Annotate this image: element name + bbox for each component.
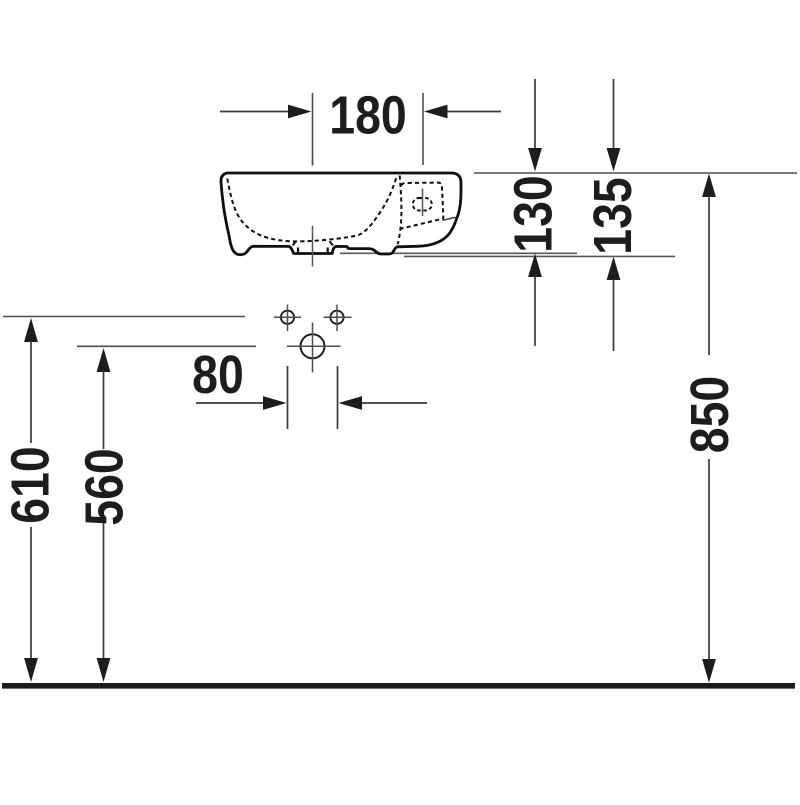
fixing hole right crosshair [324,316,352,318]
svg-text:180: 180 [329,84,406,145]
svg-text:130: 130 [502,175,563,252]
svg-text:135: 135 [582,177,643,254]
svg-text:850: 850 [679,376,740,453]
dim 135: lower up arrow and stem [607,257,621,280]
extension line B (basin underside, for 135) [404,255,675,257]
extension line A (basin bottom, for 130) [340,252,577,254]
drain centerline through pocket [312,226,314,267]
dim 560: top up arrow and stem [97,348,111,372]
tap platform side wall (dashed) [398,176,402,245]
svg-text:610: 610 [0,446,60,523]
floor line [2,683,795,689]
dim 80: right arrow [358,402,427,404]
drain cone left wing [293,241,296,245]
svg-text:80: 80 [192,344,244,405]
inner bowl rim (hidden/dashed) [227,175,397,241]
tap hole (dashed stadium) [413,198,432,211]
dim 610: lower stem and down arrow to floor [30,527,32,660]
dim 850: top up arrow and stem [702,174,716,198]
dim 180: right arrow [444,111,501,113]
drain cone right wing [330,241,333,245]
fixing hole left [281,311,294,324]
dim 180: left extension line [312,93,314,165]
fixing hole left crosshair [274,316,301,318]
deck-to-rim thin edge line [443,217,455,220]
dim 560: lower stem and down arrow to floor [103,523,105,660]
dim 180: left arrow [220,111,292,113]
dim 80: right extension line [337,366,339,429]
extension line for 610 (fixing hole height) [3,316,245,318]
dim 130: lower up arrow and stem [528,254,542,277]
dim 135: upper stem and down arrow [613,79,615,152]
basin centerline tick above rim [312,159,314,166]
dim 180: right extension line [422,93,424,165]
basin outer outline [221,173,461,255]
drain pocket inner ticks [297,248,299,253]
svg-text:560: 560 [73,448,134,525]
extension line right of rim (wall top reference) [474,172,797,174]
tap hole centerline [422,189,424,217]
dim 80: left extension line [287,366,289,429]
tap platform top face (dashed rounded rect, open left) [400,183,444,229]
drain hole crosshair [287,345,341,347]
dim 80: left arrow [196,402,268,404]
dim 610: top up arrow and stem [24,318,38,342]
extension line for 560 (drain height) [77,345,256,347]
drain hole circle [301,334,325,358]
fixing hole right [330,311,343,324]
dim 130: upper stem and down arrow [534,79,536,152]
dim 850: lower stem and down arrow to floor [708,459,710,661]
